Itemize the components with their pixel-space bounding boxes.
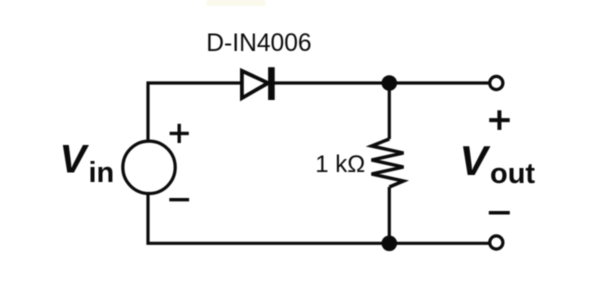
svg-text:out: out	[490, 158, 535, 190]
svg-text:V: V	[460, 137, 491, 184]
svg-text:V: V	[60, 138, 90, 182]
svg-text:D-IN4006: D-IN4006	[206, 30, 311, 57]
svg-text:1 kΩ: 1 kΩ	[315, 151, 365, 178]
svg-text:in: in	[89, 157, 115, 189]
